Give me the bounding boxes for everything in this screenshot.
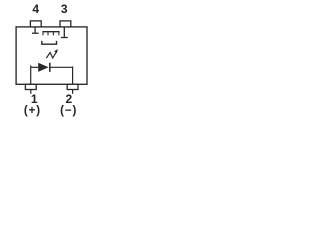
svg-text:3: 3 — [61, 2, 68, 16]
pin 1 tab — [25, 84, 36, 89]
wire pin3 source lead — [63, 27, 65, 37]
pin 4 tab — [30, 21, 41, 27]
pin 1 lead — [30, 89, 32, 94]
mosfet Q1 channel with contact ticks — [42, 32, 59, 36]
LED D1 anode wire — [31, 66, 39, 68]
LED D1 cathode bar — [49, 63, 51, 72]
pin 2 tab — [67, 84, 78, 89]
wire pin4 drain lead — [34, 27, 36, 33]
mosfet Q1 source contact bar — [61, 37, 68, 39]
svg-text:(−): (−) — [60, 105, 77, 117]
light coupling arrow — [46, 49, 58, 58]
mosfet Q1 gate electrode — [42, 41, 57, 44]
wire anode to pin 1 — [30, 65, 32, 84]
svg-text:(+): (+) — [24, 105, 41, 117]
mosfet Q1 drain contact bar — [32, 32, 39, 34]
pin 3 tab — [60, 21, 71, 27]
package outline — [16, 27, 87, 84]
pin 2 lead — [72, 89, 74, 94]
wire cathode to pin 2 — [72, 66, 74, 84]
LED D1 triangle — [38, 63, 48, 72]
svg-text:4: 4 — [32, 2, 39, 16]
LED D1 cathode wire — [51, 66, 73, 68]
